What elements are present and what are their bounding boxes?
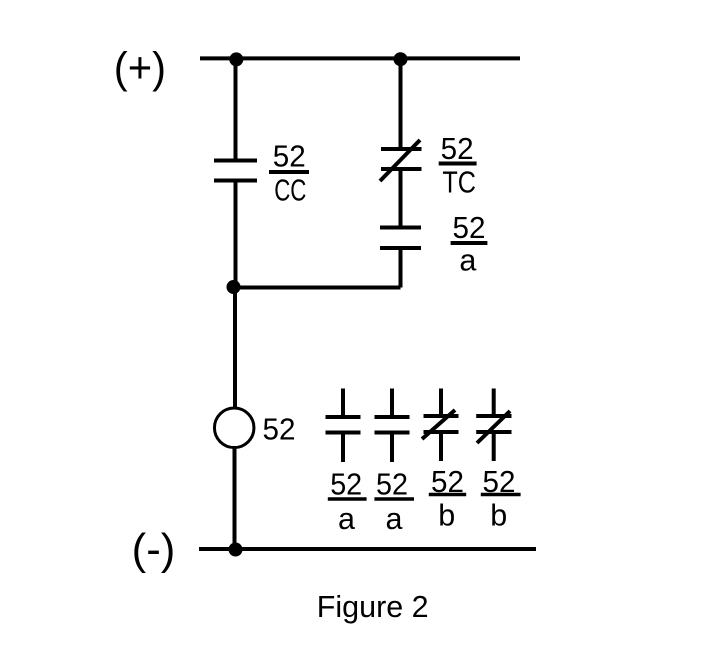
label coil 52	[263, 413, 296, 447]
svg-text:Figure 2: Figure 2	[317, 590, 429, 624]
label contact 3 numerator 52	[431, 465, 464, 499]
auxiliary contact 3 upper lead	[439, 389, 443, 417]
auxiliary contact 1 lower lead	[341, 433, 345, 463]
wire horizontal connecting branch bottoms	[236, 286, 401, 290]
label contact 1 denominator a	[338, 502, 355, 536]
auxiliary contact 2 top bar	[375, 415, 410, 419]
auxiliary contact 1 top bar	[326, 415, 361, 419]
svg-text:(-): (-)	[132, 525, 176, 574]
wire from junction node down to coil 52	[233, 288, 237, 409]
svg-text:TC: TC	[442, 166, 476, 200]
svg-text:52: 52	[273, 140, 306, 174]
contact 52/TC top bar	[381, 147, 422, 151]
svg-text:52: 52	[376, 468, 408, 502]
label contact 3 fraction bar	[429, 493, 466, 497]
svg-text:CC: CC	[274, 174, 306, 208]
label contact 1 fraction bar	[328, 497, 367, 501]
label contact 4 numerator 52	[483, 465, 516, 499]
junction dot at top of TC branch	[394, 52, 408, 66]
auxiliary contact 3 top bar	[424, 414, 459, 418]
label 52/a fraction bar	[451, 241, 488, 245]
wire from positive bus to contact 52/CC	[234, 58, 238, 161]
junction dot where branches rejoin	[227, 280, 241, 294]
label contact 2 fraction bar	[374, 497, 414, 501]
svg-text:b: b	[490, 498, 507, 532]
node (-) negative rail label	[132, 525, 176, 574]
label 52/TC fraction bar	[439, 162, 477, 166]
svg-text:a: a	[386, 502, 403, 536]
junction dot at negative bus	[229, 543, 243, 557]
wire from contact 52/CC down to junction node	[234, 181, 238, 288]
auxiliary contact 4 bottom bar	[476, 430, 511, 434]
auxiliary contact 4 lower lead	[492, 432, 496, 461]
coil 52 circle	[214, 408, 254, 448]
label 52/CC denominator CC	[274, 174, 306, 208]
contact 52/a top bar	[380, 226, 421, 230]
wire between contact 52/TC and contact 52/a	[399, 169, 403, 228]
label 52/a denominator a	[459, 244, 476, 278]
label 52/CC numerator 52	[273, 140, 306, 174]
wire from coil 52 to negative bus	[233, 448, 237, 549]
auxiliary contact 4 top bar	[476, 414, 511, 418]
auxiliary contact 2 bottom bar	[375, 431, 410, 435]
label 52/CC fraction bar	[269, 170, 309, 174]
auxiliary contact 1 bottom bar	[326, 431, 361, 435]
junction dot at top of CC branch	[229, 52, 243, 66]
label contact 1 numerator 52	[330, 468, 362, 502]
caption Figure 2	[317, 590, 429, 624]
wire negative bus	[199, 547, 536, 551]
label contact 4 denominator b	[490, 498, 507, 532]
contact 52/a bottom bar	[380, 246, 421, 250]
svg-text:52: 52	[330, 468, 362, 502]
auxiliary contact 4 closed-contact slash	[477, 411, 510, 443]
label contact 4 fraction bar	[481, 493, 521, 497]
contact 52/TC bottom bar	[381, 167, 422, 171]
auxiliary contact 1 upper lead	[341, 389, 345, 418]
svg-text:(+): (+)	[114, 43, 166, 92]
contact 52/CC bottom bar	[214, 179, 257, 183]
auxiliary contact 4 upper lead	[492, 389, 496, 417]
wire from contact 52/a down to horizontal wire	[399, 248, 403, 288]
svg-text:a: a	[459, 244, 476, 278]
contact 52/TC closed-contact slash	[380, 140, 420, 181]
auxiliary contact 2 lower lead	[390, 433, 394, 463]
label contact 3 denominator b	[438, 498, 455, 532]
svg-text:a: a	[338, 502, 355, 536]
auxiliary contact 3 lower lead	[439, 432, 443, 461]
wire from positive bus to contact 52/TC	[399, 58, 403, 149]
label 52/a numerator 52	[453, 211, 486, 245]
label contact 2 numerator 52	[376, 468, 408, 502]
svg-text:52: 52	[441, 132, 474, 166]
svg-text:52: 52	[263, 413, 296, 447]
node (+) positive rail label	[114, 43, 166, 92]
contact 52/CC top bar	[214, 159, 257, 163]
label 52/TC numerator 52	[441, 132, 474, 166]
auxiliary contact 3 bottom bar	[424, 430, 459, 434]
label 52/TC denominator TC	[442, 166, 476, 200]
auxiliary contact 2 upper lead	[390, 389, 394, 418]
svg-text:b: b	[438, 498, 455, 532]
svg-text:52: 52	[453, 211, 486, 245]
label contact 2 denominator a	[386, 502, 403, 536]
auxiliary contact 3 closed-contact slash	[422, 410, 455, 439]
wire positive bus	[200, 56, 520, 60]
